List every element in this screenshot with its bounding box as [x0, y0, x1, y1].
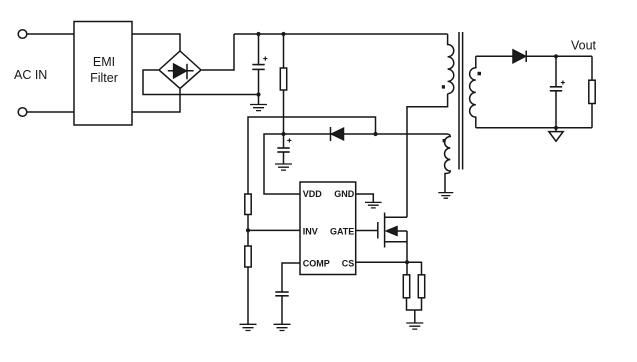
polarity dot secondary: [478, 72, 482, 76]
wire: [202, 34, 235, 70]
wire secondary bottom: [476, 127, 592, 129]
node: [256, 92, 260, 96]
ground: [438, 193, 453, 199]
transformer core: [459, 32, 463, 170]
node: [256, 32, 260, 36]
node: [554, 126, 558, 130]
svg-text:VDD: VDD: [303, 189, 323, 199]
svg-text:COMP: COMP: [303, 258, 330, 268]
ground: [275, 164, 292, 170]
wire: [264, 134, 300, 194]
svg-text:INV: INV: [303, 226, 318, 236]
wire: [143, 70, 257, 95]
capacitor C1 bulk: [252, 34, 267, 95]
node VDD: [281, 132, 285, 136]
IC U1 controller: [300, 182, 356, 275]
wire: [407, 262, 422, 275]
wire: [132, 34, 180, 51]
wire: [248, 229, 300, 231]
wire drain: [407, 94, 448, 218]
transformer T1 primary winding: [448, 34, 454, 94]
capacitor C3: [275, 292, 288, 324]
wire: [27, 111, 74, 113]
wire GATE: [356, 230, 378, 232]
wire: [284, 133, 376, 135]
wire: [132, 89, 180, 112]
svg-text:Vout: Vout: [571, 39, 597, 53]
bridge rectifier BR1: [159, 51, 201, 89]
resistor R5 sense: [418, 275, 424, 298]
transformer T1 secondary winding: [470, 56, 476, 128]
ground: [250, 95, 267, 111]
wire GND pin: [356, 194, 374, 202]
node: [554, 54, 558, 58]
svg-text:GND: GND: [334, 189, 355, 199]
wire: [248, 117, 376, 194]
resistor R2: [245, 194, 251, 246]
diode D1 output: [513, 50, 526, 63]
svg-text:Filter: Filter: [90, 71, 118, 85]
svg-text:EMI: EMI: [93, 55, 115, 69]
node: [281, 32, 285, 36]
transistor Q1 MOSFET: [378, 213, 407, 263]
resistor R4 sense: [403, 275, 409, 298]
capacitor C2: [277, 134, 291, 164]
transformer T1 aux winding: [376, 134, 451, 193]
terminal J1 bottom: [18, 108, 27, 117]
ground: [274, 324, 291, 330]
ground: [240, 324, 257, 330]
node INV: [246, 228, 250, 232]
wire secondary top: [476, 55, 513, 57]
polarity dot aux: [443, 139, 446, 142]
wire: [407, 298, 422, 323]
svg-text:GATE: GATE: [330, 226, 354, 236]
wire CS: [356, 261, 407, 263]
resistor R3: [245, 246, 251, 324]
node: [373, 132, 377, 136]
chassis ground: [549, 128, 563, 141]
polarity dot primary: [442, 85, 445, 88]
ground: [365, 202, 382, 208]
EMI filter block: [74, 22, 132, 126]
resistor R6 load: [589, 56, 595, 128]
ground: [406, 323, 423, 329]
node CS: [405, 260, 409, 264]
wire: [526, 55, 592, 57]
wire: [27, 33, 74, 35]
capacitor C4 output: [550, 56, 565, 128]
wire HV rail: [234, 33, 448, 35]
resistor R1: [280, 34, 286, 134]
terminal J1 top: [18, 30, 27, 39]
svg-text:AC IN: AC IN: [14, 68, 47, 82]
wire COMP: [282, 263, 300, 292]
diode D2: [331, 127, 344, 141]
svg-text:CS: CS: [342, 258, 355, 268]
